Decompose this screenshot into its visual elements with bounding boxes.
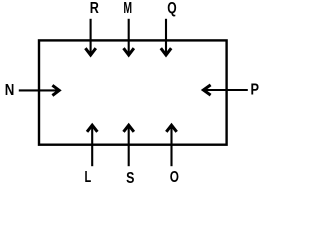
arrow S (up, bottom-middle) <box>124 125 134 167</box>
svg-text:S: S <box>126 170 134 187</box>
rectangle box <box>39 40 227 144</box>
svg-text:R: R <box>90 0 99 17</box>
arrow O (up, bottom-right) <box>166 125 176 167</box>
svg-text:N: N <box>5 82 15 99</box>
svg-text:Q: Q <box>167 0 176 17</box>
arrow Q (down, top-right) <box>161 19 171 55</box>
arrow M (down, top-middle) <box>124 19 134 55</box>
arrow P (leftward, right side) <box>203 85 247 95</box>
svg-text:O: O <box>170 169 179 186</box>
svg-text:M: M <box>123 0 132 17</box>
svg-text:P: P <box>251 82 260 99</box>
svg-text:L: L <box>85 169 92 186</box>
arrow R (down, top-left) <box>85 19 95 55</box>
arrow N (rightward, left side) <box>19 85 59 95</box>
arrow L (up, bottom-left) <box>87 125 97 167</box>
